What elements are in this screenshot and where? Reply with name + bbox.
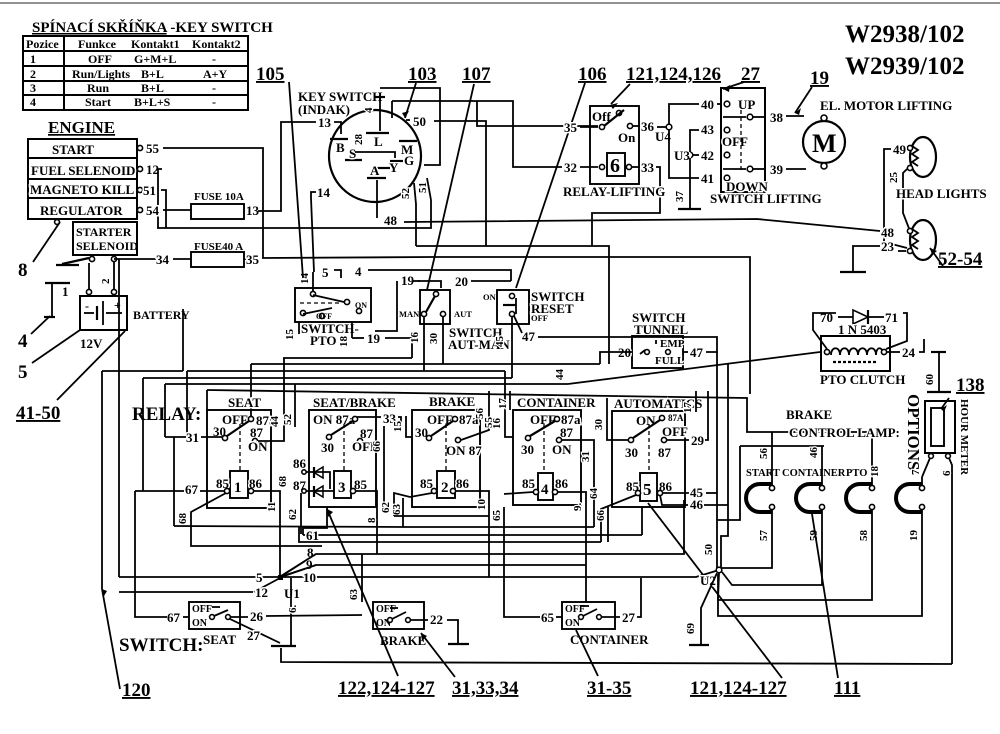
wire 27 seat diag to ground (230, 619, 296, 646)
svg-text:50: 50 (413, 114, 426, 129)
relay K5 AUTOMATICS box (612, 396, 702, 507)
svg-text:40: 40 (701, 97, 714, 112)
wire 22 brake switch (411, 612, 469, 644)
label 106 with leader (516, 64, 607, 288)
vertical net16 to 31 (186, 371, 188, 437)
hourmeter terminals (929, 454, 951, 459)
svg-text:65: 65 (491, 510, 503, 522)
svg-text:12V: 12V (80, 336, 103, 351)
wire 17 automatics stub (682, 391, 696, 413)
svg-text:BRAKE: BRAKE (429, 394, 475, 409)
wire 46 automatics (660, 364, 728, 568)
svg-text:OFF: OFF (530, 412, 556, 427)
key switch wire 51 stem (417, 178, 431, 200)
bus y516 brake (394, 515, 489, 517)
svg-text:63: 63 (348, 589, 360, 601)
diode bracket right to clutch (886, 313, 907, 349)
svg-text:33: 33 (641, 160, 655, 175)
bus net16 y371 (187, 370, 505, 372)
svg-text:CONTAINER: CONTAINER (782, 468, 846, 479)
svg-text:4: 4 (355, 264, 362, 279)
svg-text:41-50: 41-50 (16, 403, 60, 424)
svg-text:44: 44 (269, 416, 281, 428)
bus net20 y364 (251, 363, 600, 365)
svg-text:Kontakt1: Kontakt1 (131, 37, 180, 51)
wire 69 U2 to ground (685, 573, 717, 645)
svg-text:HEAD LIGHTS: HEAD LIGHTS (896, 186, 987, 201)
svg-text:15: 15 (284, 329, 296, 341)
node U4 (655, 124, 672, 144)
wire 8 diag from U1 (281, 554, 316, 576)
switch reset S4 box (497, 290, 529, 324)
wire 50 down to U2 (703, 446, 740, 568)
svg-text:19: 19 (908, 530, 920, 542)
relay-lifting terminal 35 (599, 124, 604, 129)
svg-text:12: 12 (146, 162, 159, 177)
wire 56 lamp1 (758, 432, 772, 485)
svg-text:24: 24 (902, 345, 916, 360)
svg-text:BATTERY: BATTERY (133, 308, 190, 322)
svg-text:PTO: PTO (846, 468, 867, 479)
switch lifting terminal 40 (701, 97, 755, 112)
wire 33 seat/brake (357, 411, 401, 427)
wire 60 ground stub (924, 352, 951, 392)
svg-text:51: 51 (143, 183, 156, 198)
svg-text:S: S (349, 146, 356, 161)
svg-text:17: 17 (497, 398, 509, 410)
vertical net44 left end (164, 384, 166, 437)
switch S9 CONTAINER box (562, 602, 649, 647)
svg-text:B+L: B+L (141, 67, 164, 81)
bus net45 y378 (143, 377, 512, 379)
diode wire terminals (302, 470, 306, 474)
svg-text:30: 30 (321, 440, 334, 455)
switch tunnel contacts (640, 338, 685, 367)
wire 36 to U4 (633, 119, 666, 134)
svg-text:16: 16 (491, 418, 503, 430)
wire 62 seat/brake down (287, 493, 301, 534)
svg-text:1: 1 (62, 284, 69, 299)
svg-text:68: 68 (177, 513, 189, 525)
engine terminal 12 (137, 162, 159, 177)
headlight H1 (907, 137, 936, 177)
leader 122,124-127 from seat/brake coil (327, 509, 398, 676)
svg-text:AUT: AUT (454, 309, 472, 319)
svg-text:105: 105 (256, 64, 285, 85)
svg-text:W2938/102: W2938/102 (845, 21, 964, 48)
wire 66 seat/brake (371, 426, 384, 506)
svg-text:EL. MOTOR LIFTING: EL. MOTOR LIFTING (820, 98, 952, 113)
svg-text:2: 2 (441, 480, 449, 496)
wire 33 (592, 160, 660, 246)
svg-text:32: 32 (564, 160, 577, 175)
wire 47 reset (514, 316, 717, 352)
wire U3 up to 43 (690, 130, 699, 152)
svg-text:39: 39 (770, 162, 784, 177)
svg-text:58: 58 (858, 530, 870, 542)
wire 61 hook seat/brake (303, 507, 327, 535)
switch pto contacts (300, 291, 367, 321)
wire 65 container switch (541, 610, 562, 625)
wire 34 battery to fuse40 (119, 258, 156, 260)
svg-text:SELENOID: SELENOID (76, 239, 138, 253)
ground bar starter (56, 264, 79, 266)
net 4-32-35 wire (391, 101, 393, 118)
left border verticals (101, 371, 103, 589)
switch pto stub 18 (338, 322, 352, 347)
key switch wire 50 (406, 114, 486, 246)
net35 branch (477, 101, 598, 126)
switch lifting terminal 41 (701, 171, 730, 186)
svg-text:-: - (212, 81, 216, 95)
svg-text:14: 14 (299, 273, 311, 285)
svg-text:29: 29 (691, 433, 705, 448)
svg-text:57: 57 (758, 530, 770, 542)
node U3 (674, 148, 693, 163)
wire U4 up to 40 (669, 104, 699, 124)
svg-text:CONTROL LAMP:: CONTROL LAMP: (789, 425, 900, 440)
svg-text:-: - (212, 52, 216, 66)
svg-text:55: 55 (146, 141, 160, 156)
svg-text:MAN: MAN (399, 309, 420, 319)
label 5 with leader (18, 330, 80, 383)
svg-text:34: 34 (156, 252, 170, 267)
svg-text:SPÍNACÍ SKŘÍŇKA -KEY SWITCH: SPÍNACÍ SKŘÍŇKA -KEY SWITCH (32, 19, 273, 36)
svg-text:4: 4 (363, 107, 375, 113)
wire battery minus up (88, 263, 90, 289)
wire 32 stub (580, 166, 598, 168)
svg-text:MAGNETO KILL: MAGNETO KILL (30, 182, 134, 197)
svg-text:30: 30 (625, 445, 638, 460)
svg-text:68: 68 (277, 476, 289, 488)
key switch terminal M (399, 141, 417, 157)
svg-text:BRAKE: BRAKE (786, 407, 832, 422)
lamp LP1 START (746, 484, 775, 512)
wire 20 aut-man (455, 274, 511, 289)
switch aut-man stub 16 (409, 317, 424, 371)
svg-text:M: M (812, 129, 837, 158)
svg-text:1 N 5403: 1 N 5403 (838, 322, 887, 337)
switch pto stub 14 (312, 272, 314, 291)
headlight H2 (907, 220, 936, 260)
svg-text:52: 52 (400, 188, 412, 200)
relay-lifting terminal 33 (626, 164, 631, 169)
wire 55-56 brake to bus (461, 391, 495, 440)
switch lifting terminal 43 (701, 122, 730, 137)
vertical net45 left end (142, 378, 144, 491)
label 25 wire (888, 169, 910, 231)
svg-text:FULL: FULL (655, 355, 684, 367)
wire 38 to motor (786, 115, 804, 117)
svg-text:48: 48 (881, 225, 895, 240)
engine terminal 51 (137, 183, 156, 198)
wire 54 to fuse10A (163, 209, 191, 211)
svg-text:64: 64 (588, 488, 600, 500)
bus net51 y228 (157, 200, 431, 228)
key switch net4 wire top (380, 88, 440, 165)
svg-text:-: - (212, 95, 216, 109)
svg-text:On: On (618, 130, 636, 145)
label 138 with leader (941, 375, 985, 412)
wire 11 seat to U1 (254, 491, 280, 577)
wire 23 headlight to ground (853, 239, 906, 271)
switch lifting dashed bar (740, 110, 742, 172)
svg-text:ON: ON (192, 618, 208, 629)
svg-text:48: 48 (384, 213, 398, 228)
svg-text:86: 86 (456, 476, 470, 491)
key switch terminal L (366, 99, 389, 149)
diode D2 with 86 (293, 456, 330, 489)
wire 35 stub (580, 126, 598, 128)
svg-text:31: 31 (580, 451, 592, 462)
wire 62 63 brake (380, 493, 432, 527)
wire net4 above pto (322, 264, 511, 281)
svg-text:25: 25 (888, 172, 900, 184)
svg-text:61: 61 (306, 528, 319, 543)
wire 35 fuse40 to right bus (244, 258, 246, 260)
wire 10 brake to bus577 (456, 491, 489, 577)
diode bracket left to clutch (813, 313, 836, 349)
svg-text:138: 138 (956, 375, 985, 396)
wire 67 seat relay (135, 482, 224, 497)
svg-text:67: 67 (185, 482, 199, 497)
svg-text:SWITCH LIFTING: SWITCH LIFTING (710, 191, 822, 206)
svg-text:49: 49 (893, 142, 907, 157)
bus 9 y565 (280, 557, 586, 577)
label 105 (256, 64, 303, 278)
wire 52 seat stub (282, 384, 295, 427)
wire 19 aut-man (375, 273, 441, 331)
wire 17 container stub (497, 391, 510, 410)
vertical net17 to seat box (206, 390, 208, 410)
svg-text:RESET: RESET (531, 301, 574, 316)
svg-text:OFF: OFF (316, 312, 332, 321)
leader to 121,124-127 (648, 503, 782, 678)
key switch wire 52 stem (400, 183, 416, 246)
wire 7 hourmeter to lamp4 (910, 458, 930, 477)
svg-text:86: 86 (555, 476, 569, 491)
svg-text:121,124,126: 121,124,126 (626, 64, 721, 85)
svg-text:5: 5 (322, 265, 329, 280)
wire battery plus up label 2 (113, 262, 115, 289)
svg-text:87: 87 (560, 425, 574, 440)
wire 46 lamp2 (808, 446, 822, 485)
wire 20 tunnel (600, 345, 632, 364)
wire 66 automatics stub (595, 507, 608, 542)
svg-text:111: 111 (834, 678, 860, 699)
key switch wire 48 from A (376, 180, 378, 218)
key switch S-G link wire (355, 152, 395, 158)
wire 6 hourmeter down (941, 458, 953, 664)
bus net52 y246 (416, 246, 609, 364)
svg-text:30: 30 (593, 419, 605, 431)
svg-text:3: 3 (338, 480, 346, 496)
svg-text:L: L (374, 134, 383, 149)
key switch wire 14 hook (311, 185, 331, 272)
key switch terminal A (367, 163, 386, 178)
svg-text:2: 2 (30, 67, 36, 81)
svg-text:13: 13 (246, 203, 260, 218)
svg-text:G: G (404, 153, 414, 168)
wire 61 automatics stub (641, 507, 643, 535)
wire 45 reset (494, 317, 512, 378)
svg-text:Kontakt2: Kontakt2 (192, 37, 241, 51)
svg-text:18: 18 (338, 336, 350, 348)
fuse F2 40A (191, 241, 244, 267)
svg-text:UP: UP (738, 97, 755, 112)
switch pto caption (301, 321, 359, 348)
label 4 with leader (18, 316, 50, 352)
key switch S1 label (298, 89, 382, 117)
switch tunnel S5 caption (632, 310, 689, 337)
label 41-50 with leader (16, 331, 125, 424)
svg-text:B: B (336, 140, 345, 155)
svg-text:60: 60 (924, 374, 936, 386)
bus 8 y554 (280, 500, 684, 577)
engine terminal 55 (137, 141, 159, 156)
label 52-54 with leader (930, 248, 983, 270)
svg-text:CONTAINER: CONTAINER (517, 395, 596, 410)
key switch S1 circle (329, 110, 421, 202)
ground 1 symbol (44, 283, 70, 317)
wire 19 from pto (352, 331, 412, 358)
key switch terminal G (390, 153, 414, 168)
wire 19 lamp4 down (718, 510, 922, 616)
node U1 fan (278, 575, 300, 601)
switch S7 SEAT box (189, 602, 240, 647)
svg-text:4: 4 (541, 482, 549, 498)
table: key switch positions grid (23, 36, 248, 110)
svg-text:37: 37 (674, 191, 686, 203)
label 121,124,126 with leader (610, 64, 721, 109)
svg-text:Funkce: Funkce (78, 37, 117, 51)
svg-text:CONTAINER: CONTAINER (570, 632, 649, 647)
svg-text:103: 103 (408, 64, 437, 85)
svg-text:B+L+S: B+L+S (134, 95, 171, 109)
svg-text:12: 12 (255, 585, 268, 600)
relay K3 SEAT/BRAKE box (309, 395, 396, 507)
wire 39 to motor (786, 168, 806, 170)
wire 59 lamp2 down (722, 510, 822, 585)
ground headlight (840, 271, 866, 273)
svg-text:46: 46 (690, 497, 704, 512)
svg-text:23: 23 (881, 239, 895, 254)
wire 64 automatics diag (588, 488, 636, 543)
svg-text:Pozice: Pozice (26, 37, 59, 51)
diode D1 1N5403 (820, 310, 898, 337)
wire 24 (887, 339, 924, 360)
switch lifting S6 box (721, 88, 765, 192)
wire 6 from U1 down (287, 578, 299, 645)
svg-text:ENGINE: ENGINE (48, 118, 115, 137)
switch aut-man stub 30 (428, 317, 443, 364)
wire 44 diagonal to clutch (554, 352, 820, 384)
wire net48 long to headlights (404, 219, 880, 231)
svg-text:106: 106 (578, 64, 607, 85)
svg-text:26: 26 (250, 609, 264, 624)
ground 37 (678, 208, 701, 210)
pto clutch coil (824, 348, 886, 362)
wire 45 automatics (663, 352, 717, 520)
svg-text:PTO CLUTCH: PTO CLUTCH (820, 372, 905, 387)
svg-text:46: 46 (808, 447, 820, 459)
wire 65 container coil (504, 492, 533, 494)
node U2 (700, 567, 722, 588)
svg-text:OFF: OFF (722, 134, 748, 149)
lamp bus y446 (740, 445, 824, 447)
starter selenoid terminals (89, 256, 116, 261)
starter selenoid box (73, 222, 138, 255)
switch aut-man caption (448, 325, 510, 352)
label 27 with leader (723, 64, 761, 92)
wire 5 to U1 (119, 570, 278, 585)
svg-text:STARTER: STARTER (76, 225, 132, 239)
svg-text:A+Y: A+Y (203, 67, 228, 81)
svg-text:RELAY-LIFTING: RELAY-LIFTING (563, 184, 665, 199)
svg-text:6: 6 (610, 155, 620, 177)
vertical aut-man30 join (442, 363, 444, 365)
wire 12 down to bus228 (158, 169, 162, 228)
switch pto S2 box (295, 288, 371, 322)
wire 8 seat/brake down (356, 491, 378, 554)
wire 9 diag from U1 (281, 565, 316, 577)
svg-text:ON: ON (565, 618, 581, 629)
svg-text:19: 19 (810, 68, 829, 89)
wire 57 lamp1 down (722, 510, 772, 568)
svg-text:62: 62 (287, 509, 299, 521)
svg-text:TUNNEL: TUNNEL (634, 322, 689, 337)
switch reset contacts (483, 292, 548, 323)
svg-text:27: 27 (622, 610, 636, 625)
svg-text:ON: ON (552, 442, 572, 457)
svg-text:3: 3 (30, 81, 36, 95)
svg-text:16: 16 (409, 332, 421, 344)
relay K1 SEAT box (207, 395, 276, 508)
svg-text:OFF: OFF (192, 604, 212, 615)
svg-text:5: 5 (18, 362, 28, 383)
relay-lifting K6 box (590, 106, 639, 184)
wire 15 brake hook (392, 416, 412, 437)
lamp LP4 OPTIONS (896, 484, 925, 512)
wire 13 from fuse to key switch B (258, 122, 316, 211)
svg-text:30: 30 (521, 442, 534, 457)
wire 9 container down (558, 492, 586, 602)
label 19 with leader (795, 68, 829, 115)
svg-text:+: + (114, 298, 121, 312)
key switch terminal S (345, 146, 362, 161)
pto clutch L1 box (821, 336, 890, 371)
svg-text:14: 14 (317, 185, 331, 200)
svg-text:31: 31 (186, 430, 199, 445)
bottom bus y651 (281, 648, 952, 664)
relay-lifting switch arm (604, 110, 624, 126)
svg-text:43: 43 (701, 122, 715, 137)
wire 65 brake down (491, 507, 540, 617)
svg-text:START: START (52, 142, 94, 157)
label 49 wire (884, 142, 908, 248)
relay K2 BRAKE box (412, 394, 482, 507)
svg-text:Run/Lights: Run/Lights (72, 67, 130, 81)
svg-text:START: START (746, 468, 780, 479)
svg-text:7: 7 (910, 469, 922, 475)
svg-text:27: 27 (247, 628, 261, 643)
wire 63 brake switch up (361, 554, 363, 602)
relay-lifting off contact (616, 110, 621, 115)
svg-text:2: 2 (100, 278, 112, 284)
svg-text:ON 87: ON 87 (446, 443, 482, 458)
wire 31 seat (165, 430, 222, 526)
svg-text:ON 87a: ON 87a (313, 412, 356, 427)
